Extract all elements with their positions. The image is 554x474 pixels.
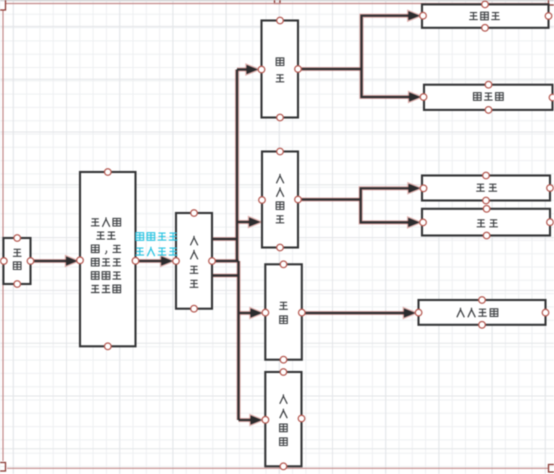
text geren-shoucang [457, 308, 498, 317]
handles of geren-shoucang box [415, 297, 548, 328]
wire W10 branch to ziliao [239, 419, 252, 421]
arrowhead into tupian box [247, 65, 259, 74]
box tupian (pictures) [262, 21, 299, 118]
wire W8 trunk x238.5 [237, 261, 239, 420]
arrowhead into aihao box [249, 217, 261, 226]
text geren-ziliao [280, 395, 288, 446]
arrowhead into biaoqingbao box [408, 11, 420, 20]
wire W4 trunk x237 [236, 70, 238, 262]
arrowhead into qita box [408, 218, 420, 227]
wire W16 up to yinyue [361, 188, 409, 199]
box qita (other) [422, 209, 550, 236]
handles of home box [173, 210, 216, 312]
wire W13 up to biaoqingbao [362, 16, 409, 69]
text shou-cang [279, 302, 288, 323]
handles of qita box [420, 206, 554, 239]
arrowhead into gerenshoucang box [404, 308, 416, 317]
page selection top-center handle [275, 0, 281, 4]
wire W12 tupian out [298, 68, 362, 70]
page selection boundary top edge [6, 3, 548, 5]
wire W17 down to qita [361, 200, 409, 223]
handles of shoucang box [262, 261, 305, 363]
wire W7 home stub mid [212, 260, 239, 262]
arrowhead into shoucang box [251, 308, 263, 317]
connector glow layer [31, 11, 421, 425]
wire W3 home stub upper [212, 238, 237, 240]
box welcome page [80, 172, 136, 346]
box geren zhuye (home) [176, 213, 212, 309]
wire W11 home stub lower [212, 274, 239, 276]
handles of biaoqingbao box [420, 1, 552, 31]
arrowhead into home box [161, 256, 173, 265]
selection corner handle top-left [0, 0, 6, 10]
wire W5 branch to tupian [237, 68, 247, 70]
text yin-yue [476, 184, 497, 191]
text geren-aihao [276, 174, 285, 222]
text biao-qing-bao [469, 12, 500, 20]
arrowhead into tupianlang box [409, 92, 421, 101]
selection corner handle bottom-left [0, 463, 6, 472]
arrowhead into welcome box [66, 256, 78, 265]
handles of tupian box [258, 17, 301, 121]
box geren ziliao (profile) [265, 372, 301, 466]
handles of welcome box [77, 169, 139, 350]
text welcome description [91, 218, 121, 293]
wire W2 welcome->home [136, 260, 162, 262]
box tupianlang (gallery) [424, 85, 553, 110]
text geren-zhuye [190, 236, 199, 287]
text tu-pian-lang [474, 93, 504, 101]
selection corner handle bottom-right [549, 465, 554, 473]
text qi-ta [477, 220, 498, 227]
box biaoqingbao (stickers) [422, 4, 549, 27]
selection corner handle top-right [549, 0, 554, 5]
box yinyue (music) [422, 176, 550, 201]
wire W14 down to tupianlang [362, 69, 410, 97]
text kai-shi [13, 249, 22, 269]
handles of yinyue box [420, 172, 553, 204]
page selection boundary left edge [2, 11, 4, 462]
wire W9 branch to shoucang [239, 312, 252, 314]
window top border line [0, 0, 554, 2]
box geren shoucang [419, 300, 546, 325]
text login-success annotation (cyan) [136, 233, 178, 256]
arrowhead into ziliao box [251, 415, 263, 424]
page selection boundary bottom edge [7, 467, 548, 469]
wire W15 aihao out [298, 198, 361, 200]
handles of tupianlang box [420, 81, 554, 113]
box kaishi (start) [3, 238, 30, 284]
box shoucang (favorites) [265, 264, 302, 359]
text tu-pian [276, 58, 285, 82]
handles of ziliao box [262, 369, 305, 470]
wire W6 branch to aihao [237, 221, 250, 223]
handles of start box [1, 235, 34, 288]
arrowhead into yinyue box [409, 184, 421, 193]
wire W1 start->welcome [31, 260, 67, 262]
box geren aihao (hobby) [262, 152, 298, 248]
wire W18 shoucang->gerenshoucang [302, 312, 404, 314]
handles of aihao box [259, 148, 302, 251]
